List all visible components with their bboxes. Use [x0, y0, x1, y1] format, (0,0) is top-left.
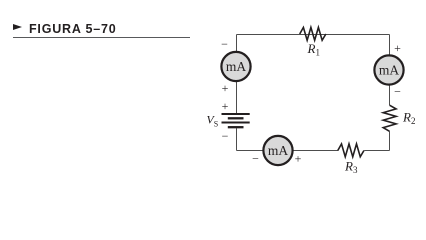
- ammeter A2 circle: [374, 55, 403, 84]
- svg-text:−: −: [394, 85, 401, 99]
- wire bottom right segment: [364, 150, 389, 152]
- svg-text:+: +: [295, 152, 302, 166]
- svg-text:+: +: [222, 99, 229, 113]
- resistor R3 zigzag: [338, 144, 364, 157]
- ammeter A3 circle: [263, 136, 292, 165]
- ammeter A1 circle: [221, 52, 250, 81]
- svg-text:R1: R1: [307, 41, 320, 58]
- wire left lower vertical (battery to bottom): [236, 128, 238, 150]
- battery Vs short plate: [228, 117, 244, 119]
- svg-text:+: +: [394, 41, 401, 55]
- svg-text:mA: mA: [268, 143, 289, 158]
- battery Vs long plate top: [222, 113, 250, 115]
- svg-text:−: −: [221, 37, 228, 51]
- wire top (node between A1 and R1 and A2): [237, 34, 390, 36]
- svg-text:mA: mA: [226, 59, 247, 74]
- resistor R2 zigzag: [383, 105, 396, 131]
- svg-text:R2: R2: [402, 109, 415, 126]
- svg-text:R3: R3: [344, 159, 358, 176]
- svg-text:−: −: [252, 152, 259, 166]
- svg-text:VS: VS: [207, 113, 219, 129]
- resistor R1 zigzag: [300, 27, 326, 40]
- battery Vs short plate bottom: [228, 126, 244, 128]
- battery Vs long plate lower: [222, 122, 250, 124]
- wire right lower vertical: [389, 131, 391, 150]
- svg-text:mA: mA: [379, 63, 400, 78]
- wire bottom (node between Vs, A3, R3): [237, 150, 339, 152]
- wire right branch vertical: [389, 35, 391, 106]
- svg-text:+: +: [222, 81, 229, 95]
- wire left branch vertical: [236, 35, 238, 115]
- figure caption FIGURA 5-70: [13, 22, 190, 39]
- svg-text:−: −: [222, 129, 229, 143]
